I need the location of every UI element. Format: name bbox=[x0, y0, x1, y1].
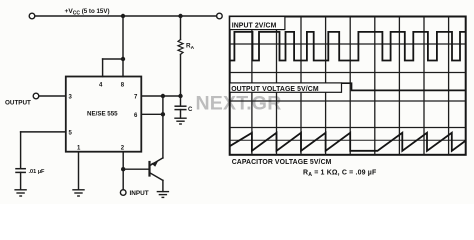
wire C1 to ground bbox=[180, 110, 182, 118]
wire pin 8 drop bbox=[122, 16, 124, 77]
svg-text:1: 1 bbox=[77, 146, 81, 152]
op-amp U1 NE/SE 555 box bbox=[66, 77, 142, 152]
svg-text:+VCC (5 to 15V): +VCC (5 to 15V) bbox=[65, 8, 110, 17]
svg-text:NEXT.GR: NEXT.GR bbox=[196, 93, 282, 115]
junction pin4 tee bbox=[121, 57, 125, 61]
node INPUT terminal bbox=[120, 190, 126, 196]
svg-text:C: C bbox=[188, 107, 193, 113]
svg-text:RA = 1 KΩ, C = .09 µF: RA = 1 KΩ, C = .09 µF bbox=[303, 170, 377, 179]
node terminal right bbox=[217, 13, 223, 19]
wire pin1 drop bbox=[78, 152, 80, 190]
wire pin4 drop bbox=[102, 59, 104, 77]
junction pin7 RA C1 bbox=[178, 94, 182, 98]
wire pin5 drop to C2 bbox=[20, 132, 22, 168]
svg-text:INPUT: INPUT bbox=[130, 190, 149, 197]
junction top rail to pin8 bbox=[121, 14, 125, 18]
junction pin7 emitter bbox=[161, 94, 165, 98]
input trace label box bbox=[230, 17, 285, 30]
wire emitter up to pin6/7 net bbox=[162, 96, 164, 158]
svg-text:5: 5 bbox=[69, 130, 73, 136]
svg-text:INPUT 2V/CM: INPUT 2V/CM bbox=[232, 22, 277, 29]
ground under C1 bbox=[175, 118, 186, 124]
wire collector to ground bbox=[162, 180, 164, 191]
svg-text:RA: RA bbox=[186, 43, 195, 52]
wire RA top lead bbox=[180, 16, 182, 40]
resistor RA bbox=[178, 40, 183, 55]
node +VCC terminal left bbox=[29, 13, 35, 19]
input trace bbox=[230, 32, 466, 61]
capacitor trace bbox=[230, 133, 466, 151]
svg-text:3: 3 bbox=[69, 95, 73, 101]
wire RA bottom lead bbox=[180, 54, 182, 96]
svg-text:8: 8 bbox=[121, 83, 125, 89]
scope panel border bbox=[230, 17, 466, 155]
wire pin2 drop bbox=[122, 152, 124, 190]
svg-text:.01 µF: .01 µF bbox=[29, 169, 46, 175]
svg-text:2: 2 bbox=[121, 146, 125, 152]
svg-text:CAPACITOR VOLTAGE 5V/CM: CAPACITOR VOLTAGE 5V/CM bbox=[232, 159, 332, 166]
junction pin2 base tee bbox=[121, 167, 125, 171]
output trace bbox=[342, 83, 466, 90]
ground under pin1 bbox=[73, 190, 84, 196]
wire top rail bbox=[35, 15, 216, 17]
ground under Q1 bbox=[157, 192, 168, 198]
scope panel bbox=[196, 17, 466, 155]
output trace label box bbox=[230, 83, 342, 92]
wire pin3 output bbox=[39, 95, 66, 97]
svg-text:4: 4 bbox=[99, 83, 103, 89]
svg-text:NE/SE 555: NE/SE 555 bbox=[87, 111, 118, 118]
svg-text:7: 7 bbox=[134, 95, 138, 101]
scope horizontal gridlines bbox=[230, 44, 466, 140]
wire C2 to ground bbox=[20, 172, 22, 189]
wire base bbox=[123, 168, 148, 170]
svg-text:OUTPUT: OUTPUT bbox=[5, 99, 31, 106]
ground under C2 bbox=[15, 190, 26, 196]
wire pin4 jog horizontal bbox=[103, 58, 123, 60]
svg-text:6: 6 bbox=[134, 113, 138, 119]
capacitor C1 bbox=[175, 106, 186, 109]
svg-text:OUTPUT VOLTAGE 5V/CM: OUTPUT VOLTAGE 5V/CM bbox=[231, 86, 319, 93]
wire pin7 horizontal bbox=[141, 95, 180, 97]
wire pin6 horizontal bbox=[141, 113, 163, 115]
scope vertical gridlines bbox=[252, 17, 449, 155]
wire C1 top lead bbox=[180, 96, 182, 106]
junction top rail to RA bbox=[178, 14, 182, 18]
capacitor C2 .01uF bbox=[16, 169, 25, 173]
transistor Q1 bbox=[150, 158, 163, 181]
junction pin6 emitter net bbox=[161, 112, 165, 116]
wire pin5 horizontal bbox=[21, 131, 66, 133]
node OUTPUT terminal bbox=[33, 93, 39, 99]
